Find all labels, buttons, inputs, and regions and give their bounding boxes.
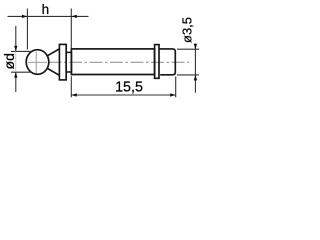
collar [59, 44, 66, 80]
h left arrow [22, 15, 28, 18]
od dimension line middle thin part [15, 51, 17, 72]
o3,5 top arrow [194, 44, 197, 50]
od top extension line [11, 50, 32, 52]
cone bottom edge [47, 68, 59, 75]
shaft [71, 49, 154, 75]
svg-text:15,5: 15,5 [115, 80, 143, 96]
ring flange [155, 45, 159, 79]
o3,5 dimension line [194, 44, 196, 93]
relief groove [66, 52, 71, 72]
h left extension line [26, 9, 28, 50]
svg-text:ø3,5: ø3,5 [180, 17, 195, 43]
15,5 right extension line [175, 77, 177, 98]
svg-text:ød: ød [1, 53, 17, 69]
o3,5 bottom arrow [194, 75, 197, 81]
15,5 dimension line [71, 94, 175, 96]
15,5 right arrow [170, 93, 176, 96]
end cap with rounded right corners [159, 49, 175, 75]
od dimension line upper part [15, 26, 17, 51]
ball [26, 50, 49, 75]
h right extension line [70, 9, 72, 49]
15,5 left extension line [70, 76, 72, 97]
centerline (dash-dot axis of stem) [49, 61, 190, 63]
o3,5 top extension line [177, 48, 199, 50]
ball center cross horizontal [28, 61, 47, 63]
ball center cross vertical [35, 52, 37, 75]
od top arrow [14, 46, 17, 52]
od dimension line lower part [15, 72, 17, 92]
od bottom arrow [14, 72, 17, 78]
h right arrow [71, 15, 77, 18]
o3,5 bottom extension line [177, 74, 199, 76]
cone top edge [47, 49, 59, 56]
od bottom extension line [11, 71, 32, 73]
svg-text:h: h [42, 2, 50, 17]
h dimension line [8, 15, 89, 17]
15,5 left arrow [71, 93, 77, 96]
